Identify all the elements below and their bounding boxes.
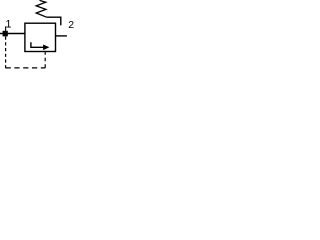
pilot line bottom run (dashed) [6, 67, 46, 69]
junction (node) square [3, 31, 8, 37]
pilot line down from junction (dashed) [5, 37, 7, 69]
port 1 stub [5, 26, 7, 31]
port 2 wire [56, 35, 67, 37]
port 1 wire [0, 33, 25, 35]
valve body box [25, 23, 56, 51]
flow-path arrow inside body [31, 42, 44, 47]
spring (zigzag) on top [36, 0, 46, 17]
arrowhead [43, 45, 49, 51]
spring-to-port-2 link (right, down) [47, 17, 61, 25]
svg-text:1: 1 [5, 19, 11, 31]
svg-text:2: 2 [68, 20, 74, 31]
pilot line up to valve bottom (dashed) [44, 52, 46, 68]
